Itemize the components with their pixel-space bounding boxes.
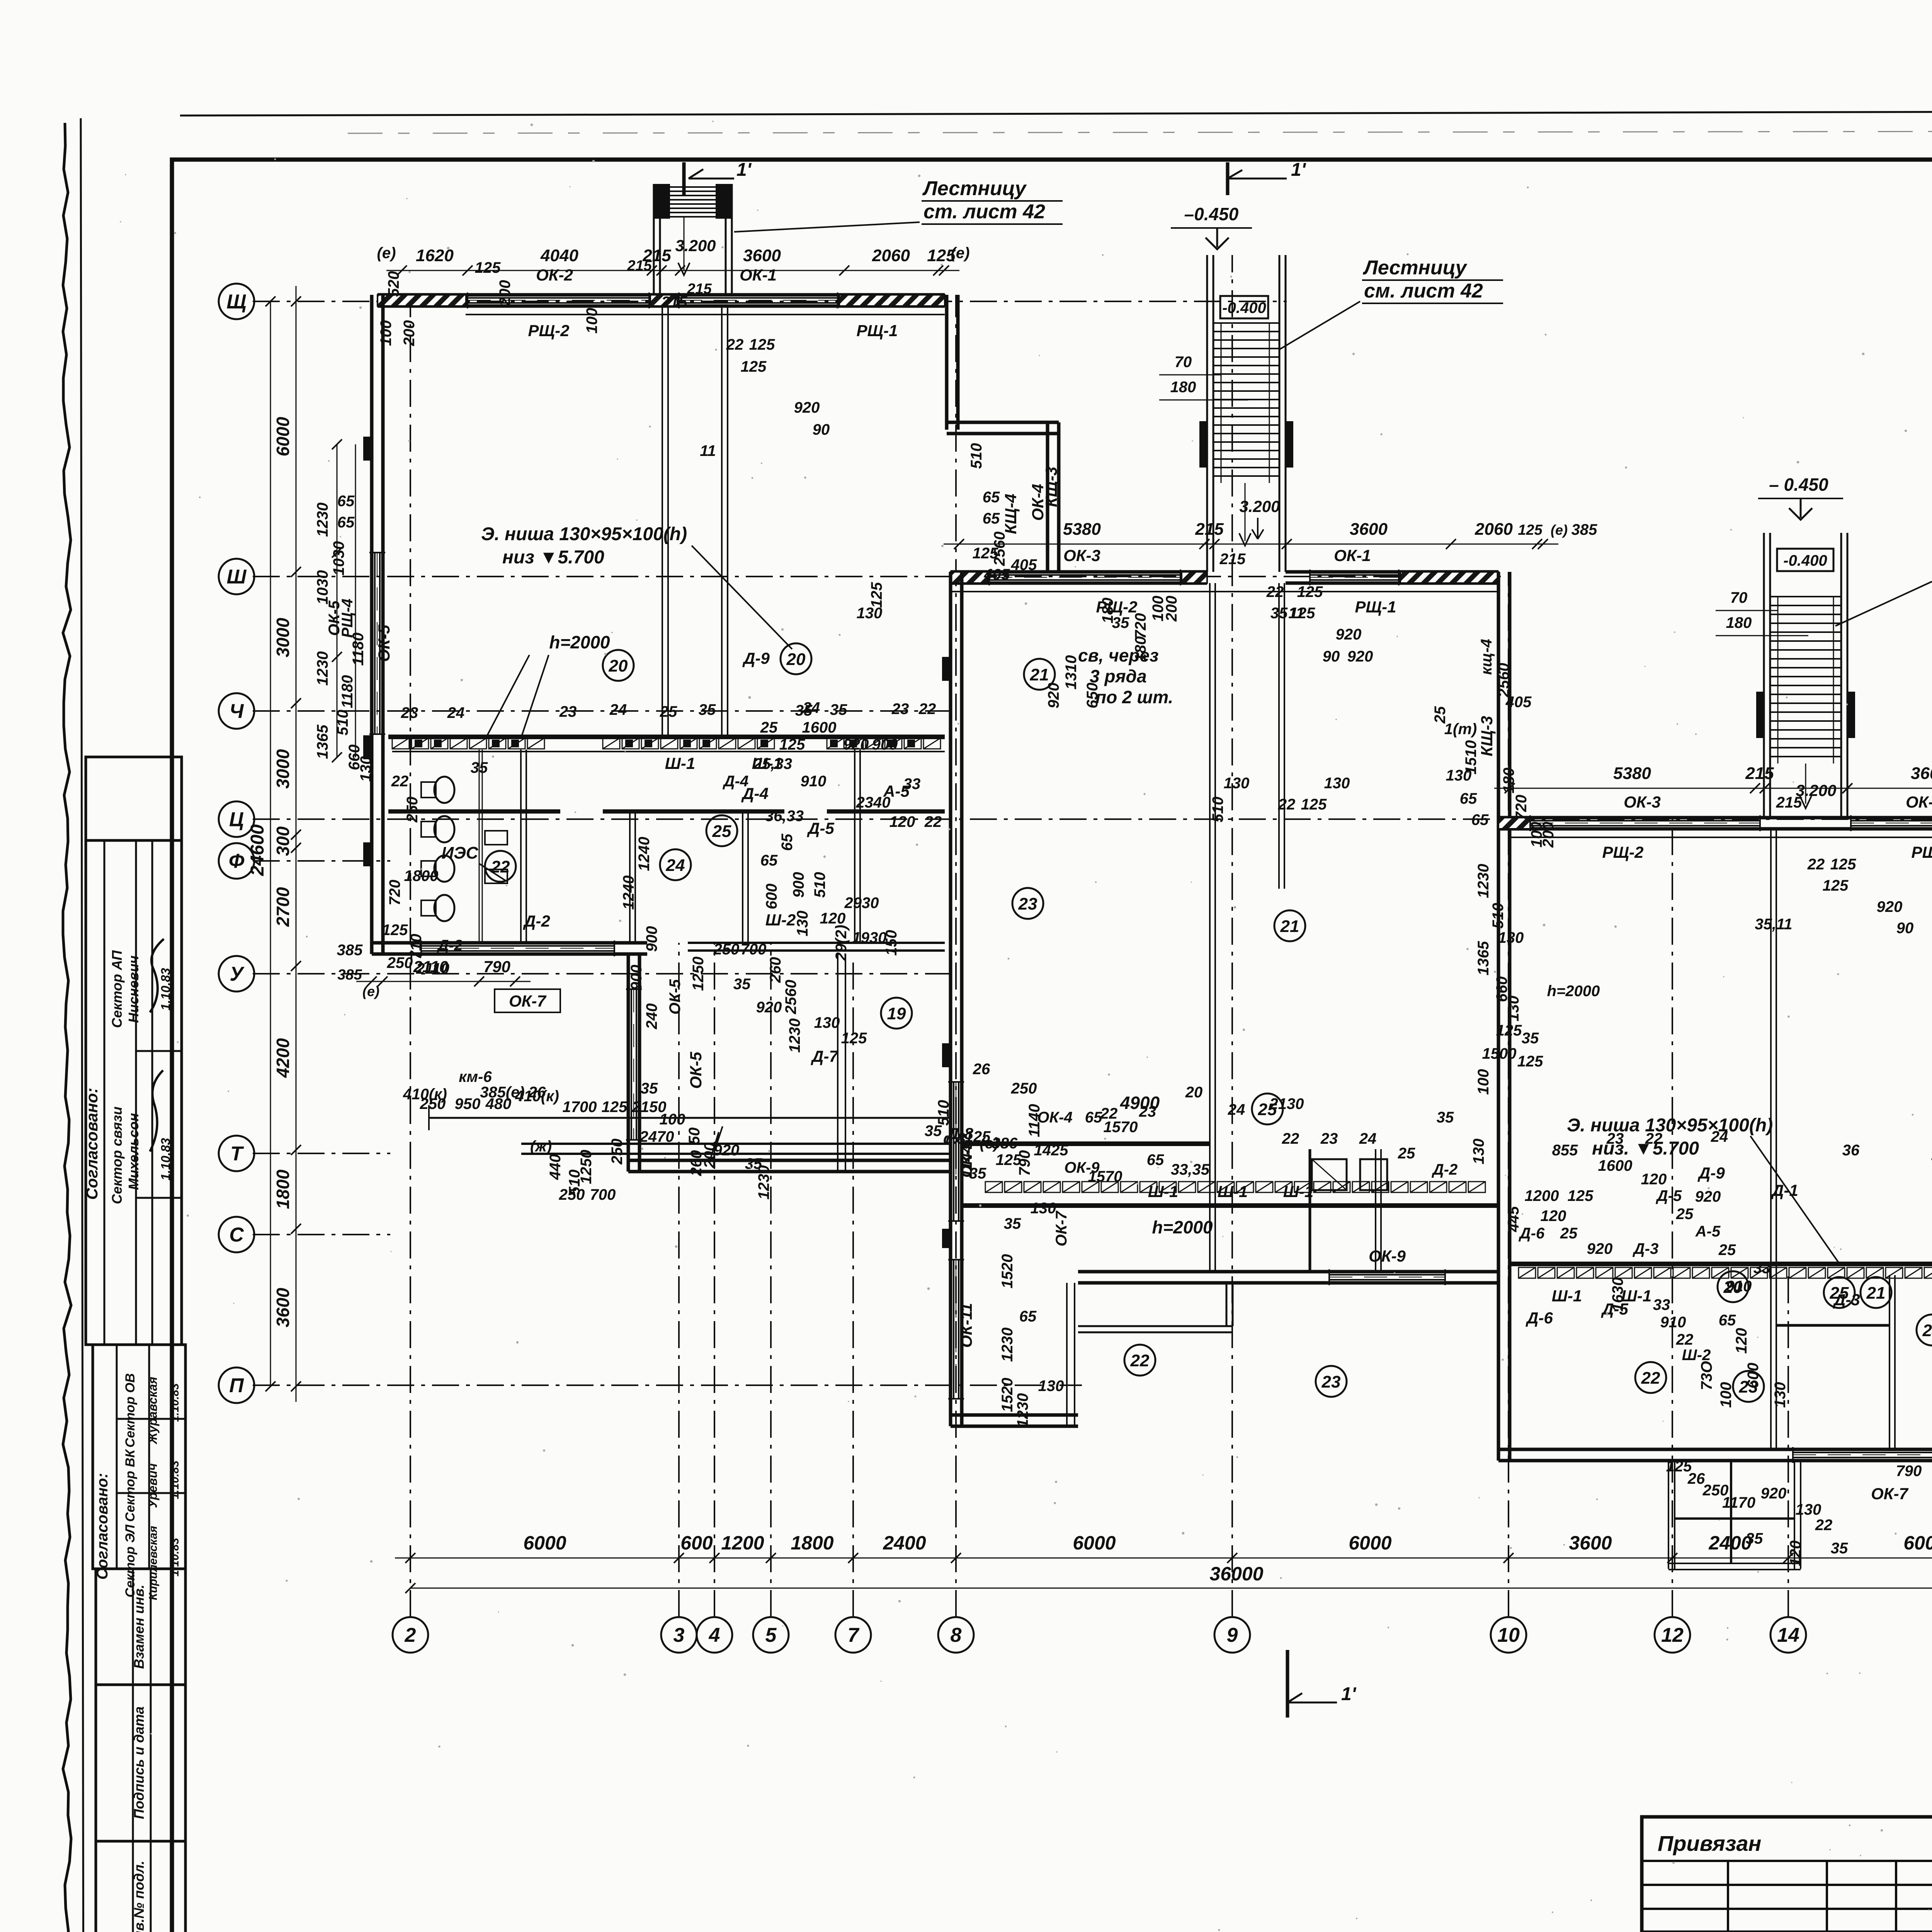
svg-text:650: 650 xyxy=(1084,683,1101,709)
svg-text:120: 120 xyxy=(889,813,915,830)
svg-text:1240: 1240 xyxy=(620,876,637,910)
svg-text:1140: 1140 xyxy=(1026,1104,1043,1137)
svg-text:2340: 2340 xyxy=(856,794,891,811)
gap wall between wings xyxy=(521,1143,951,1145)
svg-text:125: 125 xyxy=(1301,796,1327,813)
svg-text:35: 35 xyxy=(641,1080,658,1097)
svg-text:1230: 1230 xyxy=(786,1019,803,1053)
dims over left wing xyxy=(386,270,959,271)
svg-text:24: 24 xyxy=(1922,1321,1932,1340)
svg-text:6000: 6000 xyxy=(1903,1532,1932,1554)
svg-text:1800: 1800 xyxy=(273,1169,293,1209)
svg-text:1630: 1630 xyxy=(1609,1277,1626,1312)
svg-text:90: 90 xyxy=(813,421,830,438)
left wing east wall upper xyxy=(945,295,949,430)
svg-text:1520: 1520 xyxy=(999,1378,1016,1412)
horizontal axis dash-dot lines xyxy=(253,301,1287,302)
svg-text:Нисневич: Нисневич xyxy=(126,956,141,1023)
svg-text:25: 25 xyxy=(712,822,731,841)
svg-text:35: 35 xyxy=(1746,1530,1763,1547)
svg-text:65: 65 xyxy=(983,489,1000,506)
svg-text:Д-7: Д-7 xyxy=(811,1047,838,1065)
svg-text:Д-1: Д-1 xyxy=(1771,1181,1798,1199)
room circle 23 xyxy=(1316,1366,1347,1397)
svg-text:35: 35 xyxy=(699,701,716,718)
svg-text:24: 24 xyxy=(1359,1130,1377,1147)
room circle 23 xyxy=(1012,888,1043,919)
svg-text:24: 24 xyxy=(1711,1128,1728,1145)
svg-text:1170: 1170 xyxy=(1722,1494,1755,1511)
svg-text:920: 920 xyxy=(843,736,869,753)
svg-text:1230: 1230 xyxy=(1475,864,1492,898)
svg-text:Сектор АП: Сектор АП xyxy=(109,950,125,1028)
toilet fixtures left wing xyxy=(434,777,454,803)
svg-text:120: 120 xyxy=(1787,1541,1804,1566)
svg-text:125: 125 xyxy=(1517,1053,1543,1070)
middle wing partition x3560 xyxy=(1375,1149,1376,1272)
total dimension 36000 xyxy=(410,1588,1932,1589)
svg-text:Ф: Ф xyxy=(229,850,245,872)
svg-text:1200: 1200 xyxy=(721,1532,764,1554)
svg-text:250: 250 xyxy=(404,797,421,823)
sidebar box Подпись и дата xyxy=(96,1685,185,1841)
svg-text:23: 23 xyxy=(1320,1130,1338,1147)
room circle 24 xyxy=(1917,1315,1932,1345)
svg-text:25: 25 xyxy=(1398,1145,1415,1162)
svg-text:Сектор ВК: Сектор ВК xyxy=(123,1449,138,1522)
axis circle 4 xyxy=(697,1617,732,1653)
svg-text:1.10.83: 1.10.83 xyxy=(168,1461,181,1499)
axis circle П xyxy=(219,1367,254,1403)
svg-text:4900: 4900 xyxy=(1120,1093,1160,1113)
svg-text:920: 920 xyxy=(1347,648,1373,665)
middle wing south step wall xyxy=(1078,1325,1233,1327)
svg-text:4: 4 xyxy=(709,1624,720,1646)
svg-text:км-6: км-6 xyxy=(459,1068,492,1085)
svg-text:Лестницу: Лестницу xyxy=(922,177,1027,200)
sidebar box Взамен инв xyxy=(96,1569,185,1685)
svg-text:по 2 шт.: по 2 шт. xyxy=(1095,687,1173,707)
svg-text:910: 910 xyxy=(1726,1278,1752,1295)
svg-text:1230: 1230 xyxy=(314,651,331,686)
svg-text:33: 33 xyxy=(903,776,921,793)
paper torn left edge xyxy=(63,123,71,1932)
stair 3 xyxy=(1763,533,1765,818)
svg-text:125: 125 xyxy=(1496,1022,1522,1039)
svg-text:КЩ-3: КЩ-3 xyxy=(1478,716,1496,757)
svg-text:Д-3: Д-3 xyxy=(1633,1240,1658,1257)
svg-text:125: 125 xyxy=(841,1030,867,1047)
room circle 25 xyxy=(706,815,737,846)
svg-text:35: 35 xyxy=(733,976,751,993)
svg-text:24: 24 xyxy=(803,699,820,716)
svg-text:4040: 4040 xyxy=(540,246,578,265)
right wing north wall xyxy=(1498,816,1932,820)
svg-text:130: 130 xyxy=(1224,775,1250,792)
axis circle У xyxy=(219,956,254,992)
svg-text:900: 900 xyxy=(628,965,645,991)
svg-text:(е): (е) xyxy=(980,1135,999,1152)
svg-text:3: 3 xyxy=(673,1624,685,1646)
svg-text:Сектор связи: Сектор связи xyxy=(109,1107,125,1204)
svg-text:120: 120 xyxy=(1641,1171,1667,1188)
svg-text:11: 11 xyxy=(700,442,716,459)
svg-text:130: 130 xyxy=(857,605,883,622)
svg-text:410(к): 410(к) xyxy=(403,1086,447,1103)
middle wing partitions xyxy=(1209,583,1211,1272)
svg-text:Ш: Ш xyxy=(227,566,247,588)
svg-text:25: 25 xyxy=(1560,1225,1578,1242)
svg-text:35: 35 xyxy=(925,1122,942,1139)
svg-text:125: 125 xyxy=(1297,583,1323,600)
axis circle 2 xyxy=(393,1617,428,1653)
svg-text:36: 36 xyxy=(1842,1142,1860,1159)
svg-text:Михельсон: Михельсон xyxy=(126,1113,141,1190)
svg-text:РЩ-1: РЩ-1 xyxy=(1912,843,1932,861)
svg-text:300: 300 xyxy=(273,826,293,856)
svg-text:24: 24 xyxy=(609,701,627,718)
stair partition walls room 11 xyxy=(662,306,663,737)
svg-text:Взамен инв.: Взамен инв. xyxy=(131,1585,147,1669)
svg-text:ОК-5: ОК-5 xyxy=(667,979,684,1015)
left paper rule xyxy=(81,118,83,1932)
svg-text:КЩ-4: КЩ-4 xyxy=(1002,494,1020,534)
svg-text:65: 65 xyxy=(779,833,796,851)
svg-text:22: 22 xyxy=(1282,1130,1299,1147)
svg-text:36000: 36000 xyxy=(1209,1563,1263,1585)
middle wing west wall xyxy=(949,572,952,1426)
svg-text:600: 600 xyxy=(763,884,780,910)
svg-text:Э. ниша 130×95×100(h): Э. ниша 130×95×100(h) xyxy=(1567,1115,1773,1136)
svg-text:73О: 73О xyxy=(1698,1361,1715,1390)
axis circle Ц xyxy=(219,801,254,837)
left inner vertical dim lines xyxy=(337,444,338,757)
svg-text:Инв.№ подл.: Инв.№ подл. xyxy=(131,1861,147,1932)
svg-text:9: 9 xyxy=(1227,1624,1238,1646)
svg-text:РЩ-1: РЩ-1 xyxy=(857,321,898,340)
svg-text:1365: 1365 xyxy=(1475,941,1492,976)
svg-text:100: 100 xyxy=(1475,1069,1492,1095)
right wing corridor walls xyxy=(1510,1262,1932,1266)
room circle 22 xyxy=(1635,1362,1666,1393)
svg-text:3600: 3600 xyxy=(1569,1532,1612,1554)
svg-text:22: 22 xyxy=(1676,1331,1694,1348)
svg-text:Э. ниша 130×95×100(h): Э. ниша 130×95×100(h) xyxy=(481,524,687,544)
svg-text:(е): (е) xyxy=(951,245,970,262)
lintels right wing xyxy=(1498,818,1530,829)
svg-text:22: 22 xyxy=(1815,1517,1833,1534)
svg-text:22: 22 xyxy=(1645,1130,1663,1147)
svg-text:1.10.83: 1.10.83 xyxy=(168,1383,181,1422)
svg-text:35: 35 xyxy=(1522,1030,1539,1047)
svg-text:КЩ-3: КЩ-3 xyxy=(1042,467,1060,507)
svg-text:26: 26 xyxy=(528,1084,546,1101)
svg-text:900: 900 xyxy=(872,736,898,753)
left wing south wall xyxy=(372,941,647,945)
svg-text:125: 125 xyxy=(1823,877,1849,894)
svg-text:22: 22 xyxy=(924,813,942,830)
svg-text:25: 25 xyxy=(760,719,778,736)
svg-text:23: 23 xyxy=(401,704,418,721)
svg-text:– 0.450: – 0.450 xyxy=(1769,474,1828,495)
svg-text:920: 920 xyxy=(794,399,820,416)
svg-text:35,11: 35,11 xyxy=(1755,916,1792,933)
svg-text:35: 35 xyxy=(1004,1215,1021,1232)
left wing north wall xyxy=(378,293,945,297)
svg-text:385: 385 xyxy=(337,967,362,983)
svg-text:200: 200 xyxy=(1163,596,1180,622)
svg-text:200: 200 xyxy=(497,280,514,306)
svg-text:385(е): 385(е) xyxy=(480,1084,525,1101)
svg-text:1800: 1800 xyxy=(404,867,439,884)
svg-text:3600: 3600 xyxy=(1350,520,1388,539)
svg-text:2560: 2560 xyxy=(782,980,799,1015)
sidebar signature squiggles xyxy=(150,1070,163,1151)
svg-text:65: 65 xyxy=(337,514,355,531)
svg-text:100: 100 xyxy=(378,320,395,346)
svg-text:125: 125 xyxy=(475,259,501,276)
svg-text:35: 35 xyxy=(1270,605,1288,622)
svg-text:ОК-11: ОК-11 xyxy=(957,1303,975,1348)
svg-text:24: 24 xyxy=(1228,1101,1245,1118)
svg-text:20: 20 xyxy=(609,656,628,675)
svg-text:65: 65 xyxy=(1471,811,1489,828)
svg-text:510: 510 xyxy=(1209,797,1226,823)
svg-text:125: 125 xyxy=(1518,522,1543,538)
svg-text:130: 130 xyxy=(1324,775,1350,792)
svg-text:23: 23 xyxy=(1606,1130,1624,1147)
svg-text:25: 25 xyxy=(660,703,677,720)
svg-text:1930: 1930 xyxy=(852,929,887,946)
axis circle Т xyxy=(219,1136,254,1171)
svg-text:1230: 1230 xyxy=(1014,1393,1031,1428)
svg-text:22: 22 xyxy=(726,336,744,353)
svg-text:510: 510 xyxy=(811,872,828,898)
svg-text:1180: 1180 xyxy=(339,675,356,708)
small room walls middle bottom xyxy=(1309,1149,1311,1272)
svg-text:22: 22 xyxy=(491,857,510,876)
svg-text:23: 23 xyxy=(1321,1372,1341,1391)
svg-text:Ш-1: Ш-1 xyxy=(1148,1182,1178,1201)
svg-text:33: 33 xyxy=(1753,1260,1771,1277)
svg-text:70: 70 xyxy=(1730,589,1748,606)
svg-text:Д-3: Д-3 xyxy=(1833,1291,1860,1309)
svg-text:100: 100 xyxy=(1718,1382,1735,1408)
svg-text:510: 510 xyxy=(935,1100,952,1126)
svg-text:510: 510 xyxy=(968,443,985,469)
svg-text:2130: 2130 xyxy=(1269,1095,1304,1112)
svg-text:1030: 1030 xyxy=(330,541,347,576)
svg-text:14: 14 xyxy=(1777,1624,1799,1646)
svg-text:35: 35 xyxy=(1831,1540,1848,1557)
svg-text:22: 22 xyxy=(1278,796,1296,813)
svg-text:Согласовано:: Согласовано: xyxy=(94,1473,111,1580)
stair 2 xyxy=(1206,255,1208,572)
svg-text:РЩ-2: РЩ-2 xyxy=(1602,843,1644,861)
svg-text:Д-5: Д-5 xyxy=(1656,1187,1682,1204)
axis circle 9 xyxy=(1214,1617,1250,1653)
svg-text:215: 215 xyxy=(1195,520,1224,539)
svg-text:910: 910 xyxy=(1660,1314,1686,1331)
svg-text:29(2): 29(2) xyxy=(833,925,850,961)
svg-text:РЩ-1: РЩ-1 xyxy=(1355,598,1396,616)
svg-text:920: 920 xyxy=(1877,898,1903,915)
svg-text:130: 130 xyxy=(1038,1378,1064,1395)
svg-text:ОК-1: ОК-1 xyxy=(1906,793,1932,811)
svg-text:5380: 5380 xyxy=(1613,764,1651,783)
svg-text:65: 65 xyxy=(983,510,1000,527)
dims over right wing xyxy=(1494,788,1932,789)
svg-text:1425: 1425 xyxy=(1034,1142,1069,1159)
svg-text:1': 1' xyxy=(736,160,752,180)
middle wing north wall xyxy=(951,570,1207,574)
svg-text:250: 250 xyxy=(387,954,413,971)
svg-text:-0.400: -0.400 xyxy=(1783,552,1827,569)
svg-text:130: 130 xyxy=(1446,767,1472,784)
axis circle 7 xyxy=(835,1617,871,1653)
svg-text:1570: 1570 xyxy=(1088,1168,1122,1185)
svg-text:Т: Т xyxy=(230,1143,244,1165)
svg-text:260: 260 xyxy=(767,957,784,983)
svg-text:21: 21 xyxy=(1030,665,1049,684)
svg-text:Ц: Ц xyxy=(229,808,244,831)
svg-text:12: 12 xyxy=(1661,1624,1684,1646)
room circle 23 xyxy=(1733,1371,1764,1402)
svg-text:790: 790 xyxy=(1016,1150,1033,1176)
svg-text:ОК-3: ОК-3 xyxy=(1624,793,1661,811)
svg-text:215: 215 xyxy=(687,281,712,297)
scan noise top band xyxy=(348,131,1932,133)
svg-text:22: 22 xyxy=(1641,1369,1660,1388)
lintel panels north wall left wing xyxy=(378,295,466,306)
left wing jog vertical xyxy=(1046,422,1049,572)
svg-text:ОК-5: ОК-5 xyxy=(375,624,393,662)
svg-text:1240: 1240 xyxy=(636,837,653,871)
section mark 1 top-left stair xyxy=(682,162,686,196)
svg-text:24: 24 xyxy=(447,704,465,721)
svg-text:Ш-1: Ш-1 xyxy=(1552,1287,1582,1305)
room circle 22 xyxy=(485,851,516,882)
axis circle 3 xyxy=(661,1617,697,1653)
svg-text:215: 215 xyxy=(1219,551,1246,568)
svg-text:720: 720 xyxy=(1513,795,1530,821)
svg-text:23: 23 xyxy=(559,703,577,720)
svg-text:2060: 2060 xyxy=(1475,520,1513,539)
buffet fixtures middle wing xyxy=(1312,1159,1347,1190)
svg-text:1700: 1700 xyxy=(563,1099,597,1116)
left protrusion south wall xyxy=(628,1159,951,1162)
svg-text:22: 22 xyxy=(1100,1105,1118,1122)
left wing corridor north wall with cabinets xyxy=(388,735,945,739)
svg-text:125: 125 xyxy=(382,922,408,939)
svg-text:Привязан: Привязан xyxy=(1658,1831,1761,1855)
svg-text:65: 65 xyxy=(337,493,355,510)
room circle 21 xyxy=(1024,659,1055,690)
svg-text:Д-6: Д-6 xyxy=(1526,1309,1553,1327)
svg-text:920: 920 xyxy=(1761,1485,1787,1502)
svg-text:РЩ-4: РЩ-4 xyxy=(339,599,356,638)
svg-text:1(т): 1(т) xyxy=(1444,721,1477,738)
left protrusion west wall xyxy=(627,954,630,1172)
svg-text:100: 100 xyxy=(583,308,600,334)
svg-text:Ш-2: Ш-2 xyxy=(765,911,796,929)
sidebar empty box xyxy=(86,757,182,840)
middle wing south wall xyxy=(1078,1270,1498,1274)
svg-text:510: 510 xyxy=(1490,903,1507,929)
sidebar box Инв № подл xyxy=(96,1841,185,1932)
svg-text:200: 200 xyxy=(1540,822,1557,848)
svg-text:Ш-1: Ш-1 xyxy=(1218,1182,1248,1201)
long interior line xyxy=(429,1117,951,1119)
svg-text:35: 35 xyxy=(969,1165,986,1182)
dims over middle wing xyxy=(944,544,1558,545)
svg-text:ОК-9: ОК-9 xyxy=(1369,1247,1406,1265)
svg-text:180: 180 xyxy=(1500,768,1517,794)
svg-text:920: 920 xyxy=(1695,1188,1721,1205)
svg-text:5380: 5380 xyxy=(1063,520,1101,539)
svg-text:РЩ-2: РЩ-2 xyxy=(528,321,570,340)
left wing west wall xyxy=(370,295,374,954)
break mark on gap wall xyxy=(711,1126,723,1157)
room circle 20 xyxy=(781,643,811,674)
svg-text:21: 21 xyxy=(1866,1284,1886,1303)
svg-text:36,33: 36,33 xyxy=(765,808,804,825)
svg-text:6000: 6000 xyxy=(273,417,293,456)
svg-text:130: 130 xyxy=(814,1014,840,1031)
svg-text:405: 405 xyxy=(1505,694,1532,711)
svg-text:130: 130 xyxy=(1498,929,1524,946)
room circle 22 xyxy=(1124,1345,1155,1376)
svg-text:23: 23 xyxy=(891,701,909,718)
svg-text:8: 8 xyxy=(951,1624,962,1646)
svg-text:250: 250 xyxy=(1011,1080,1037,1097)
svg-text:2400: 2400 xyxy=(883,1532,926,1554)
svg-text:1520: 1520 xyxy=(999,1254,1016,1289)
sidebar block Согласовано 2 xyxy=(93,1345,185,1569)
svg-text:180: 180 xyxy=(1170,379,1196,396)
svg-text:405: 405 xyxy=(1011,556,1037,573)
svg-text:П: П xyxy=(229,1374,244,1397)
svg-text:3600: 3600 xyxy=(743,246,781,265)
svg-text:910: 910 xyxy=(801,773,827,790)
svg-text:130: 130 xyxy=(1796,1501,1821,1518)
axis circle 8 xyxy=(938,1617,974,1653)
stair 1 xyxy=(653,184,655,295)
axis circle Ф xyxy=(219,843,254,879)
svg-text:920: 920 xyxy=(756,999,782,1016)
axis circle 14 xyxy=(1770,1617,1806,1653)
svg-text:2060: 2060 xyxy=(872,246,910,265)
svg-text:Согласовано:: Согласовано: xyxy=(83,1088,101,1200)
svg-text:25: 25 xyxy=(1676,1206,1694,1223)
svg-text:125: 125 xyxy=(868,582,885,608)
svg-text:250: 250 xyxy=(609,1139,626,1165)
svg-text:4200: 4200 xyxy=(273,1038,293,1078)
svg-text:130: 130 xyxy=(357,756,374,782)
svg-text:Кирилевская: Кирилевская xyxy=(147,1526,160,1600)
svg-text:215: 215 xyxy=(1745,764,1774,783)
svg-text:720: 720 xyxy=(386,880,403,906)
svg-text:ОК-1: ОК-1 xyxy=(740,266,777,284)
cabinets bottom line left wing xyxy=(392,751,945,752)
svg-text:23: 23 xyxy=(1018,895,1037,913)
svg-text:200: 200 xyxy=(401,320,418,347)
svg-text:215: 215 xyxy=(1776,794,1802,811)
svg-text:90: 90 xyxy=(1323,648,1340,665)
svg-text:25,33: 25,33 xyxy=(753,755,792,772)
svg-text:19: 19 xyxy=(887,1004,906,1023)
svg-text:Лестницу: Лестницу xyxy=(1362,257,1468,279)
